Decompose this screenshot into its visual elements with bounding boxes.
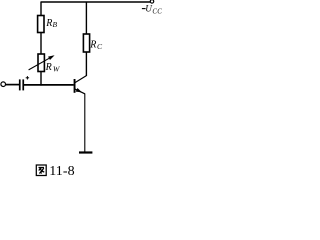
svg-text:W: W bbox=[53, 65, 61, 74]
transistor emitter lead bbox=[75, 89, 85, 94]
wire rail to RB bbox=[40, 2, 42, 16]
wire terminal to capacitor bbox=[5, 84, 19, 86]
svg-text:11-8: 11-8 bbox=[49, 164, 75, 179]
svg-text:CC: CC bbox=[152, 8, 162, 15]
transistor base bar bbox=[74, 79, 76, 93]
wire capacitor to base bbox=[24, 84, 74, 86]
potentiometer RW body bbox=[38, 54, 44, 72]
svg-text:R: R bbox=[45, 18, 52, 29]
capacitor C1 left plate bbox=[19, 79, 21, 90]
emitter arrowhead bbox=[76, 88, 82, 92]
capacitor plus polarity mark bbox=[26, 76, 28, 79]
label -Ucc bbox=[142, 8, 146, 10]
input terminal circle bbox=[1, 82, 6, 87]
wire RB to RW bbox=[40, 33, 42, 55]
resistor RC bbox=[83, 34, 89, 52]
resistor RB bbox=[38, 16, 44, 33]
potentiometer RW arrow bbox=[29, 56, 53, 70]
wire RC to collector bbox=[85, 52, 87, 76]
svg-text:C: C bbox=[97, 42, 103, 51]
capacitor C1 right plate bbox=[22, 79, 24, 90]
caption glyph tu (drawn) bbox=[36, 165, 46, 176]
wire rail to RC bbox=[85, 2, 87, 34]
wire RW to base node bbox=[40, 72, 42, 86]
ground bar bbox=[79, 151, 92, 153]
svg-text:R: R bbox=[45, 62, 52, 73]
svg-text:R: R bbox=[89, 39, 96, 50]
transistor collector lead bbox=[75, 76, 87, 83]
supply terminal circle bbox=[150, 0, 154, 3]
top supply rail wire bbox=[41, 1, 151, 3]
svg-text:B: B bbox=[53, 20, 58, 29]
emitter wire down bbox=[84, 93, 86, 151]
